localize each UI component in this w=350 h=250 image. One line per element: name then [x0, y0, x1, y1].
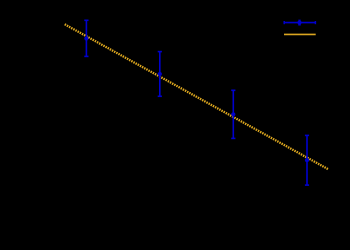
- legend errorbar sample (blue): [284, 20, 316, 25]
- legend line sample (orange solid): [284, 33, 316, 35]
- error bar 2: [158, 52, 162, 97]
- fitted line (orange dotted): [65, 24, 329, 169]
- error bar 1: [84, 20, 88, 56]
- error bar 3: [231, 90, 235, 138]
- error bar 4: [305, 135, 309, 185]
